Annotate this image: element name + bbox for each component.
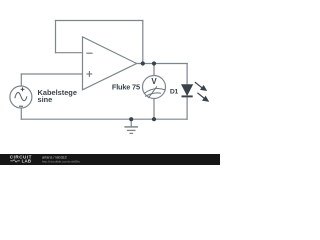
- svg-text:LAB: LAB: [22, 159, 32, 164]
- svg-text:V: V: [151, 77, 157, 86]
- svg-text:sine: sine: [38, 95, 53, 104]
- svg-text:D1: D1: [170, 89, 179, 96]
- svg-text:Fluke 75: Fluke 75: [112, 83, 140, 92]
- svg-text:http://circuitlab.com/cmb85w: http://circuitlab.com/cmb85w: [42, 160, 81, 164]
